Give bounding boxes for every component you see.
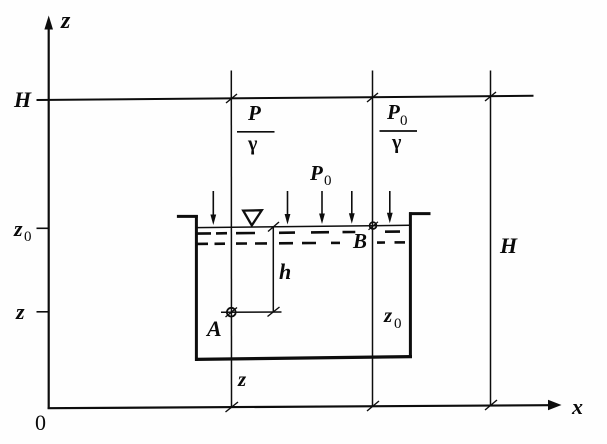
tank left wall <box>195 215 198 361</box>
slash tick at x-axis crossing 2 <box>367 401 379 411</box>
slash through point B <box>369 222 379 230</box>
slash through point A <box>226 308 238 318</box>
svg-text:P: P <box>247 101 261 125</box>
h dimension line <box>272 227 274 312</box>
svg-text:z: z <box>60 8 71 34</box>
slash tick at bottom of h line <box>268 307 280 317</box>
pressure arrow 3 <box>319 191 325 224</box>
svg-text:P: P <box>309 161 323 185</box>
point A circle <box>227 308 236 317</box>
slash tick at x-axis crossing 1 <box>226 402 239 412</box>
svg-text:γ: γ <box>247 133 258 155</box>
svg-text:H: H <box>499 233 518 258</box>
svg-text:z: z <box>237 367 247 391</box>
svg-text:0: 0 <box>394 316 402 332</box>
x axis <box>48 405 549 408</box>
svg-text:0: 0 <box>324 173 332 189</box>
z axis arrowhead <box>44 16 53 30</box>
svg-text:0: 0 <box>400 113 408 129</box>
pressure arrow 2 <box>285 191 291 225</box>
vertical guide line 3 (height H) <box>490 71 492 406</box>
svg-text:B: B <box>352 229 367 253</box>
svg-text:z: z <box>383 303 393 327</box>
z axis <box>48 27 50 409</box>
water surface line <box>197 225 410 227</box>
horizontal line through A <box>221 311 282 313</box>
slash tick at x-axis crossing 3 <box>485 400 497 410</box>
tank bottom <box>195 357 412 360</box>
svg-text:A: A <box>205 316 222 341</box>
tick z0 on z axis <box>37 227 49 229</box>
vertical guide line 2 (through B) <box>372 71 374 407</box>
H level line <box>37 96 534 100</box>
point B circle <box>370 222 377 229</box>
svg-text:0: 0 <box>24 229 32 245</box>
svg-text:0: 0 <box>35 410 46 435</box>
pressure arrow 5 <box>387 191 393 223</box>
svg-text:h: h <box>279 259 291 284</box>
slash tick at top of h line <box>268 222 279 232</box>
svg-text:H: H <box>13 87 32 112</box>
tank right lip <box>409 212 431 215</box>
svg-text:P: P <box>386 100 400 124</box>
svg-text:γ: γ <box>391 132 402 154</box>
tank left lip <box>177 215 198 218</box>
pressure arrow 1 <box>210 191 216 225</box>
pressure arrow 4 <box>349 191 355 224</box>
slash tick at H crossing 1 <box>226 94 237 103</box>
vertical guide line 1 (through A) <box>230 71 232 408</box>
slash tick at H crossing 2 <box>367 93 378 102</box>
water surface dashes row 2 <box>195 242 405 244</box>
water level triangle symbol <box>243 210 262 225</box>
tick z on z axis <box>37 311 49 313</box>
tank right wall <box>409 212 412 358</box>
slash tick at H crossing 3 <box>485 92 496 101</box>
svg-text:x: x <box>571 394 583 419</box>
water surface dashes row 1 <box>196 232 400 234</box>
svg-text:z: z <box>15 299 25 324</box>
svg-text:z: z <box>13 216 23 241</box>
x axis arrowhead <box>548 400 562 410</box>
